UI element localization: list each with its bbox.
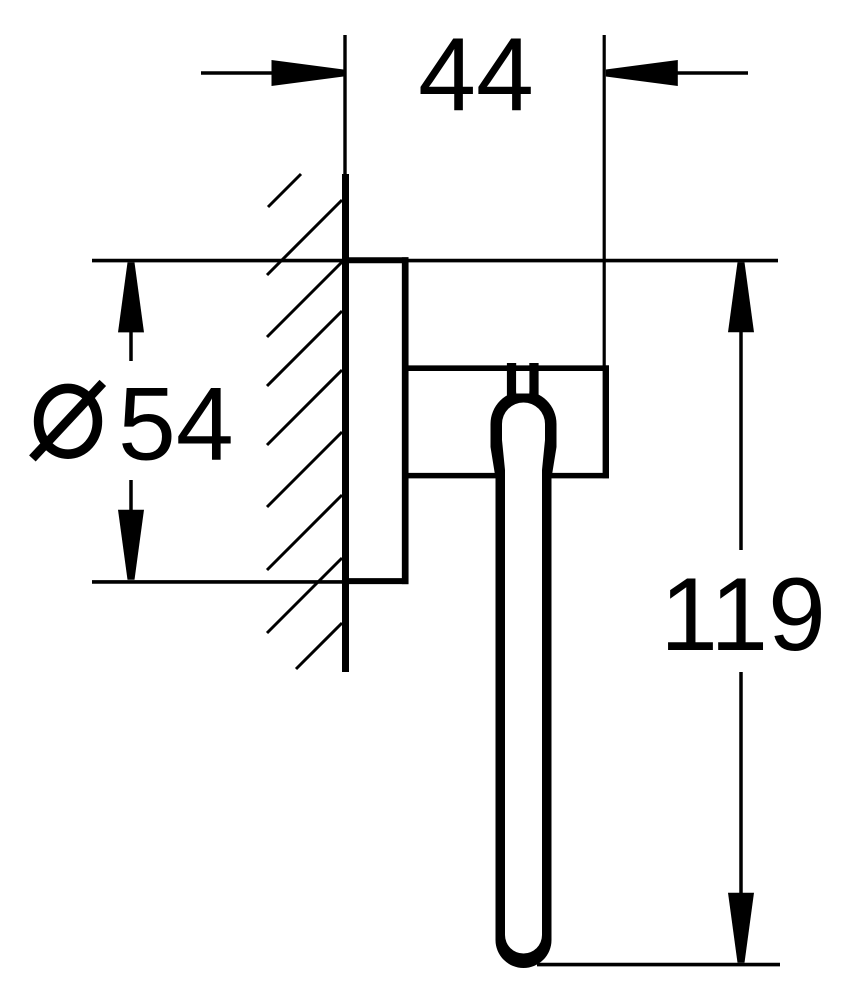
- wall hatch line 7: [267, 558, 342, 633]
- wall hatch line 8 bottom: [296, 623, 342, 669]
- pivot pin right bar: [529, 363, 538, 400]
- mounting plate right edge: [402, 257, 409, 584]
- dimension 44 right arrowhead: [606, 60, 678, 86]
- svg-text:119: 119: [660, 557, 826, 673]
- dimension 54 arrow down: [118, 510, 144, 580]
- holder arm top edge: [402, 365, 609, 371]
- wall hatch line 4: [267, 370, 342, 445]
- ring inner tube white: [505, 424, 542, 954]
- holder arm bottom edge right segment: [551, 473, 609, 479]
- dimension 54 shaft lower: [129, 480, 133, 511]
- wall hatch short line top: [268, 174, 301, 207]
- bottom extension line of diameter 54: [92, 580, 342, 584]
- ring ball shoulder taper: [491, 424, 557, 478]
- ring inner shoulder taper white: [502, 424, 545, 470]
- dimension 119 shaft lower: [739, 672, 743, 894]
- wall hatch line 6: [267, 495, 342, 570]
- dimension 119 arrow down: [728, 893, 754, 963]
- svg-text:54: 54: [118, 367, 234, 483]
- mounting plate top edge: [342, 257, 409, 263]
- holder arm right edge: [603, 365, 609, 478]
- dimension 44 left arrowhead: [272, 60, 344, 86]
- diameter symbol slash: [32, 383, 102, 459]
- extension line left (44 dim, above wall): [343, 35, 346, 175]
- ring ball joint outer: [491, 391, 557, 457]
- dimension 44 left shaft: [201, 71, 276, 75]
- top extension line (horizontal): [92, 259, 778, 263]
- dimension 119 arrow up: [728, 262, 754, 332]
- ring ball joint inner white: [502, 403, 545, 446]
- wall hatch line 3: [267, 311, 342, 386]
- mounting plate bottom edge: [342, 578, 409, 584]
- wall hatch line 5: [267, 432, 342, 507]
- ring outer tube: [496, 424, 552, 968]
- dimension 44 right shaft: [677, 71, 748, 75]
- dimension 54 shaft upper: [129, 330, 133, 361]
- svg-text:44: 44: [418, 17, 534, 133]
- bottom extension line (119 dim): [537, 963, 780, 967]
- dimension 54 arrow up: [118, 262, 144, 332]
- wall face line: [342, 174, 349, 672]
- extension line right (44 dim): [603, 35, 606, 366]
- pivot pin slot white: [516, 371, 529, 394]
- diameter symbol circle: [39, 388, 98, 454]
- holder arm bottom edge left segment: [408, 473, 496, 479]
- pivot pin left bar: [507, 363, 516, 400]
- wall hatch line 1: [267, 200, 342, 275]
- wall hatch line 2: [267, 262, 342, 337]
- dimension 119 shaft upper: [739, 330, 743, 550]
